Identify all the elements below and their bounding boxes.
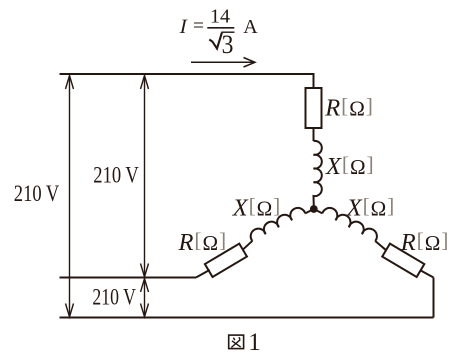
current label I = 14/sqrt(3) A xyxy=(178,5,259,59)
wire coil to resistor (left) xyxy=(242,241,252,251)
wire left resistor to bend xyxy=(196,270,210,278)
svg-text:X[Ω]: X[Ω] xyxy=(232,194,282,222)
inductor X (left coil) xyxy=(251,208,306,241)
inductor X (vertical coil) xyxy=(314,141,322,207)
bottom wire xyxy=(60,317,434,319)
svg-text:210 V: 210 V xyxy=(92,285,136,310)
svg-text:210 V: 210 V xyxy=(93,163,139,188)
dimension line B upper (top wire to middle wire) xyxy=(141,76,149,277)
wire right vertical xyxy=(433,278,435,318)
inductor X (right coil) xyxy=(322,208,377,241)
svg-text:14: 14 xyxy=(210,5,230,27)
resistor R (top vertical) xyxy=(306,88,322,128)
svg-text:X[Ω]: X[Ω] xyxy=(325,152,375,180)
dimension line A (left outer) xyxy=(66,76,74,317)
svg-text:R[Ω]: R[Ω] xyxy=(178,228,228,256)
top wire xyxy=(60,74,314,88)
wire right resistor to corner xyxy=(421,270,434,277)
current direction arrow xyxy=(191,58,255,68)
middle wire xyxy=(60,277,197,279)
node (star point) xyxy=(310,205,318,213)
dimension line B lower (middle wire to bottom wire) xyxy=(141,279,149,317)
resistor R (right, rotated) xyxy=(382,244,424,277)
svg-text:=: = xyxy=(193,15,204,37)
svg-text:210 V: 210 V xyxy=(14,181,60,206)
caption: kanji ZU (drawn) xyxy=(229,335,244,349)
resistor R (left, rotated) xyxy=(205,244,247,277)
svg-text:R[Ω]: R[Ω] xyxy=(400,228,450,256)
svg-text:A: A xyxy=(243,16,258,38)
svg-text:R[Ω]: R[Ω] xyxy=(324,94,374,122)
svg-text:1: 1 xyxy=(248,329,260,356)
wire resistor to coil xyxy=(313,128,315,141)
left branch wire from node xyxy=(305,209,314,213)
right branch wire from node xyxy=(314,209,323,213)
svg-text:X[Ω]: X[Ω] xyxy=(346,194,396,222)
svg-text:3: 3 xyxy=(222,30,234,59)
wire coil to resistor (right) xyxy=(375,241,386,250)
